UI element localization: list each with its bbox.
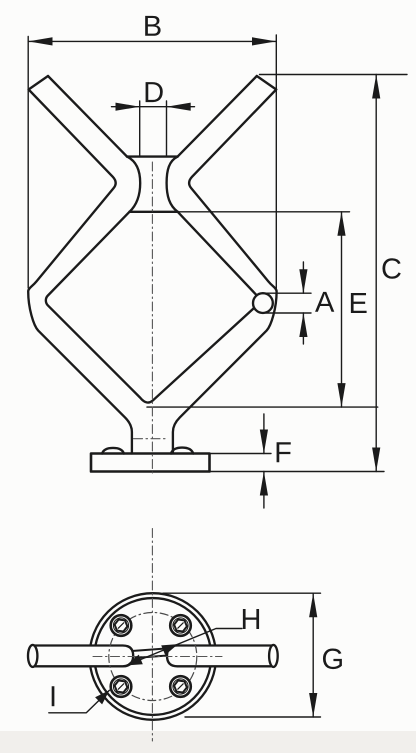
I leader arrowhead: [95, 690, 109, 704]
E arrow top: [337, 212, 345, 236]
label H: [243, 609, 259, 629]
bottom gray strip: [0, 731, 416, 753]
A bottom extension line: [266, 312, 311, 314]
A dimension upper line: [302, 262, 304, 293]
rod break slant lines: [134, 649, 165, 651]
vertical centerline top view: [151, 529, 153, 742]
label I: [52, 686, 55, 706]
F upper dimension line: [263, 414, 265, 454]
C/F bottom reference line: [210, 471, 385, 473]
C arrow top: [372, 75, 380, 99]
rod right end ellipse: [269, 645, 278, 667]
centerlines front view: [134, 162, 169, 473]
F arrow bottom (outside, pointing up): [260, 472, 268, 496]
E arrow bottom: [337, 383, 345, 407]
B arrow left: [28, 37, 52, 45]
bolt circle (dashed): [109, 613, 197, 701]
F lower dimension line: [263, 472, 265, 509]
cleat left horn end face: [29, 76, 48, 90]
waist bottom shoulder line: [130, 211, 178, 213]
vertical centerline front view: [151, 162, 153, 473]
flange right bolt bump: [171, 448, 193, 454]
bolt hole bottom-left: [111, 676, 132, 697]
neck shoulder line: [127, 155, 178, 157]
cleat right horn inner edge: [178, 76, 257, 157]
label D: [146, 82, 163, 102]
C arrow bottom: [372, 448, 380, 472]
A arrow top (outside, pointing down): [299, 269, 307, 293]
I leader line: [49, 690, 110, 713]
centerlines top view: [93, 529, 222, 742]
D dimension line: [112, 106, 195, 108]
A top extension line: [264, 292, 312, 294]
bolt hole bottom-right: [170, 676, 191, 697]
B dimension line: [28, 40, 276, 42]
label C: [382, 258, 400, 279]
G arrow top: [309, 593, 317, 617]
bolt hole top-right: [170, 615, 191, 636]
waist left wall: [127, 157, 140, 212]
horizontal centerline top view: [93, 656, 222, 658]
flange inner circle: [94, 598, 211, 715]
A circle (rod end at right vertex): [253, 293, 273, 313]
cleat left horn inner edge: [48, 76, 127, 157]
D arrow right (outside, pointing left): [167, 103, 191, 111]
rod left half: [33, 646, 133, 667]
B right extension line: [275, 35, 277, 291]
B arrow right: [252, 37, 276, 45]
cleat right horn outer edge into diamond top-right outer edge and stem: [173, 90, 277, 454]
G arrow bottom: [309, 693, 317, 717]
H leader arrowheads: [126, 644, 178, 665]
D extension lines: [139, 101, 141, 157]
C top reference line: [260, 74, 408, 76]
A dimension lower line: [302, 313, 304, 344]
F arrow top (outside, pointing down): [260, 430, 268, 454]
F top reference line: [210, 453, 272, 455]
H leader line: [126, 629, 242, 666]
label B: [145, 16, 160, 36]
G dimension line: [312, 593, 314, 717]
A arrow bottom (outside, pointing up): [299, 313, 307, 337]
E dimension line: [341, 212, 343, 407]
arrowheads front view: [28, 37, 380, 495]
rod left end ellipse: [28, 645, 37, 667]
cleat right horn end face: [257, 76, 276, 90]
horizontal centerline across stem: [134, 438, 169, 440]
flange outer circle: [90, 593, 217, 720]
waist right wall: [167, 157, 178, 212]
D arrow left (outside, pointing right): [116, 103, 140, 111]
label A: [315, 292, 334, 312]
G dimension: [163, 593, 321, 717]
base flange plate: [91, 454, 210, 472]
C dimension line: [375, 75, 377, 472]
label F: [277, 442, 291, 462]
label E: [351, 293, 367, 313]
label G: [323, 649, 342, 670]
E top reference line: [178, 211, 350, 213]
B left extension line: [27, 37, 29, 289]
cleat left horn outer edge into diamond top-left outer edge: [28, 90, 132, 454]
E bottom reference line: [147, 406, 378, 408]
G bottom reference line: [185, 716, 321, 718]
flange left bolt bump: [102, 448, 124, 454]
G top reference line: [163, 592, 321, 594]
rod right half: [167, 646, 273, 667]
bolt hole top-left: [111, 615, 132, 636]
diamond inner ring: [46, 212, 259, 403]
